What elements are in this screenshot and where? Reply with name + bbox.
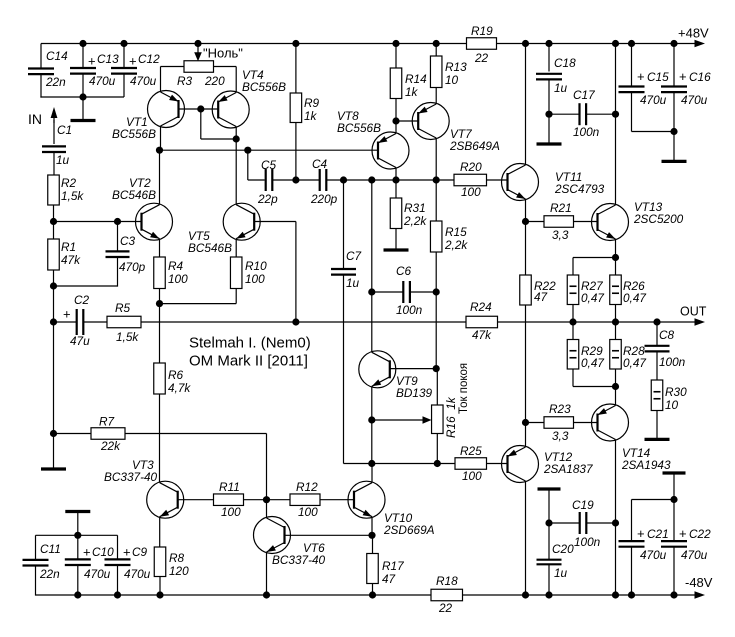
node junction VT14 emitter: [612, 383, 619, 390]
node junction C5-C4 R9: [292, 176, 299, 183]
svg-text:C10: C10: [92, 545, 114, 559]
wire C4 right: [326, 179, 343, 181]
node junction C12 top rail: [120, 40, 127, 47]
svg-text:22n: 22n: [39, 567, 60, 581]
svg-text:0,47: 0,47: [581, 356, 604, 370]
node junction VT11 rail: [522, 40, 529, 47]
wire C11 top: [35, 535, 37, 560]
wire R5 to R24: [141, 321, 466, 323]
resistor R8: [154, 547, 189, 578]
capacitor C17: [573, 88, 600, 139]
wire VT13 collector: [615, 44, 617, 206]
svg-text:R16 1k: R16 1k: [444, 396, 458, 438]
node antenna bottom block: [65, 512, 90, 536]
node junction R26 line OUT: [612, 318, 619, 325]
svg-text:470u: 470u: [130, 74, 157, 88]
node junction C10 rail: [74, 591, 81, 598]
svg-text:C14: C14: [46, 49, 68, 63]
node junction C19 right: [612, 519, 619, 526]
svg-text:100n: 100n: [659, 355, 686, 369]
svg-text:C18: C18: [554, 56, 576, 70]
svg-text:OUT: OUT: [680, 305, 707, 319]
wire ground stem C13 block: [82, 97, 84, 120]
capacitor C15: [619, 69, 670, 107]
resistor R2: [48, 175, 85, 205]
node junction y463 left: [368, 460, 375, 467]
wire R3 right to VT4: [214, 67, 237, 93]
wire IN to C1: [53, 120, 55, 144]
wire C3 bottom: [54, 257, 118, 286]
wire C7 top: [343, 180, 345, 269]
svg-text:Stelmah I. (Nem0): Stelmah I. (Nem0): [189, 335, 311, 352]
wire R26 top: [615, 258, 617, 276]
wire C2 to R5: [83, 321, 107, 323]
node junction R27 line OUT: [569, 318, 576, 325]
svg-text:470u: 470u: [84, 567, 111, 581]
resistor R16: [432, 396, 458, 438]
wire C17 left: [549, 113, 580, 115]
svg-text:BC337-40: BC337-40: [104, 470, 158, 484]
svg-text:R10: R10: [245, 259, 267, 273]
resistor R14: [390, 68, 427, 99]
wire VT1 base to VT4 base: [179, 108, 219, 110]
wire C12 top: [123, 44, 125, 69]
svg-text:470u: 470u: [640, 548, 667, 562]
transistor VT12: [502, 446, 593, 483]
svg-text:100: 100: [462, 469, 482, 483]
wire R4 bottom: [159, 289, 161, 304]
transistor VT1: [112, 91, 185, 142]
resistor R22: [520, 275, 556, 305]
wire R20 to VT11: [487, 179, 508, 181]
wire VT14 base: [574, 422, 598, 424]
svg-text:R1: R1: [61, 240, 76, 254]
node junction VT5 base drop: [292, 318, 299, 325]
resistor R23: [544, 402, 574, 443]
node junction R9 rail: [292, 40, 299, 47]
svg-text:+: +: [637, 69, 645, 84]
svg-text:1u: 1u: [554, 566, 568, 580]
capacitor C16: [661, 69, 711, 107]
svg-text:1u: 1u: [346, 276, 360, 290]
wire VT6 emitter: [266, 552, 268, 595]
resistor R1: [48, 239, 81, 270]
resistor R25: [455, 444, 487, 483]
capacitor C21: [619, 526, 669, 562]
svg-text:100n: 100n: [396, 303, 423, 317]
wire R11 to node: [244, 499, 291, 501]
svg-text:R21: R21: [550, 201, 572, 215]
node junction C5 tap: [244, 147, 251, 154]
node junction wiper: [368, 416, 375, 423]
capacitor C8: [645, 328, 686, 369]
wire R17 bottom: [372, 584, 374, 596]
svg-text:R13: R13: [445, 60, 467, 74]
wire R15 top: [435, 180, 437, 221]
wire VT9 collector line: [371, 180, 373, 352]
svg-text:100: 100: [461, 185, 481, 199]
node junction Nol rail: [194, 40, 201, 47]
svg-text:R18: R18: [436, 574, 458, 588]
wire C7 bottom: [344, 275, 372, 464]
wire VT7 base: [396, 120, 418, 122]
svg-text:+: +: [679, 526, 687, 541]
node junction R13 rail: [433, 40, 440, 47]
svg-text:C22: C22: [689, 527, 711, 541]
svg-text:100: 100: [245, 272, 265, 286]
svg-text:R7: R7: [99, 415, 115, 429]
svg-text:470u: 470u: [124, 567, 151, 581]
wire C1 to R2: [53, 152, 55, 175]
wire R9 top: [295, 44, 297, 94]
svg-text:C2: C2: [74, 293, 90, 307]
node junction C16 rail: [670, 40, 677, 47]
wire R6 to VT3: [159, 394, 161, 483]
wire feedback to C2: [54, 321, 77, 323]
node junction C4 C7: [340, 176, 347, 183]
node junction R1 bottom: [50, 282, 57, 289]
svg-text:0,47: 0,47: [581, 291, 604, 305]
node junction VT13 emitter: [612, 254, 619, 261]
wire VT1 collector: [160, 126, 162, 150]
svg-text:100n: 100n: [573, 125, 600, 139]
transistor VT2: [112, 176, 173, 240]
resistor R5: [107, 301, 141, 344]
svg-text:R4: R4: [168, 259, 184, 273]
resistor R12: [290, 480, 320, 519]
svg-text:2SB649A: 2SB649A: [449, 139, 500, 153]
svg-text:+: +: [129, 54, 137, 69]
svg-text:22n: 22n: [45, 75, 66, 89]
wire VT11 collector: [525, 44, 527, 166]
resistor R30: [651, 380, 687, 412]
svg-text:+: +: [88, 54, 96, 69]
transistor VT10: [348, 481, 435, 537]
svg-text:+: +: [637, 526, 645, 541]
wire VT5 base: [254, 222, 296, 323]
wire C5 to C4: [272, 179, 319, 181]
svg-text:C17: C17: [573, 88, 595, 102]
svg-text:100: 100: [221, 505, 241, 519]
svg-text:C13: C13: [97, 52, 119, 66]
ground R30: [645, 438, 670, 441]
node junction R7 left: [50, 430, 57, 437]
svg-text:47: 47: [534, 290, 548, 304]
wire VT5 collector: [235, 139, 237, 205]
wire y463 to R25: [372, 463, 455, 465]
svg-text:+48V: +48V: [678, 26, 709, 41]
resistor R21: [544, 201, 574, 242]
capacitor C14: [28, 49, 68, 89]
resistor R15: [430, 221, 468, 252]
wire R13 top: [435, 44, 437, 57]
resistor R3: [177, 61, 225, 88]
node junction C6 left: [368, 288, 375, 295]
resistor R11: [214, 480, 244, 519]
wire R22 top: [525, 222, 527, 276]
wire R16 bottom: [436, 434, 438, 464]
wire y180 rail: [344, 179, 455, 181]
wire C19 right: [586, 522, 615, 524]
capacitor C18: [536, 56, 576, 95]
wire C14 bottom: [40, 74, 124, 97]
resistor R26: [610, 275, 647, 305]
wire R7 right: [125, 434, 267, 500]
wire -48V rail right segment: [463, 594, 698, 596]
svg-text:2SC5200: 2SC5200: [633, 212, 684, 226]
svg-text:22p: 22p: [257, 192, 278, 206]
wire C12 bottom: [123, 74, 125, 97]
wire R29 top: [572, 322, 574, 340]
resistor R24: [466, 300, 498, 342]
wire VT9 base: [390, 368, 436, 370]
wire C21 bottom: [631, 547, 633, 595]
svg-text:BC546B: BC546B: [112, 188, 156, 202]
svg-text:470u: 470u: [89, 74, 116, 88]
wire block top: [36, 534, 118, 536]
wire R13 to VT7 emitter: [435, 88, 437, 105]
svg-text:470p: 470p: [119, 260, 146, 274]
resistor R10: [230, 257, 267, 289]
transistor VT14: [592, 404, 671, 472]
wire VT3 emitter: [159, 517, 161, 547]
capacitor C2: [63, 293, 90, 348]
capacitor C19: [572, 498, 601, 549]
node IN arrow: [28, 107, 57, 127]
svg-text:Ток покоя: Ток покоя: [458, 363, 470, 414]
svg-text:22: 22: [474, 51, 489, 65]
wire R3 left to VT1: [161, 67, 185, 93]
svg-text:47k: 47k: [472, 328, 492, 342]
svg-text:1k: 1k: [405, 85, 419, 99]
wire R1 to node: [53, 270, 55, 286]
svg-text:-48V: -48V: [685, 575, 713, 590]
wire VT10 base: [320, 499, 354, 501]
svg-text:1,5k: 1,5k: [61, 189, 84, 203]
transistor VT6: [254, 517, 326, 568]
wire R2 to node: [53, 205, 55, 222]
svg-text:2,2k: 2,2k: [444, 238, 468, 252]
svg-text:1k: 1k: [304, 109, 318, 123]
wire C14 block left: [40, 44, 42, 69]
wire R30 bottom: [656, 411, 658, 439]
wire node to R1: [53, 222, 55, 240]
wire C15 top: [631, 44, 633, 87]
wire C9 bottom: [117, 565, 119, 595]
wire VT5 emitter: [235, 239, 237, 257]
svg-text:R20: R20: [460, 160, 482, 174]
svg-text:470u: 470u: [681, 93, 708, 107]
resistor R13: [430, 56, 467, 88]
resistor R20: [454, 160, 487, 199]
svg-text:R12: R12: [296, 480, 318, 494]
wire C9 top stub: [117, 535, 119, 559]
svg-text:1u: 1u: [554, 81, 568, 95]
ground C15-C16: [662, 160, 687, 163]
svg-text:C1: C1: [57, 123, 72, 137]
capacitor C6: [396, 264, 423, 317]
svg-text:R19: R19: [471, 24, 493, 38]
svg-text:BC546B: BC546B: [188, 241, 232, 255]
node junction C13 bottom: [79, 93, 86, 100]
wire R4 to R10: [160, 289, 237, 304]
wire VT14 emitter: [615, 387, 617, 406]
ground C18: [537, 142, 562, 145]
node junction C17 left: [545, 111, 552, 118]
svg-text:3,3: 3,3: [552, 228, 569, 242]
wire VT3 base: [178, 499, 214, 501]
wire C16 bottom: [673, 92, 675, 131]
capacitor C5: [257, 158, 278, 206]
label title: [189, 335, 311, 370]
svg-text:R6: R6: [168, 368, 184, 382]
transistor VT8: [337, 109, 409, 169]
wire VT11 emitter: [525, 199, 527, 222]
wire R4 node down to R6: [159, 304, 161, 363]
wire R28 top: [615, 322, 617, 340]
node R16 wiper arrow: [372, 416, 432, 424]
wire VT12 collector: [525, 481, 527, 595]
svg-text:2SD669A: 2SD669A: [383, 523, 435, 537]
wire R9 bottom: [295, 123, 297, 181]
transistor VT4: [212, 68, 286, 128]
node antenna C19: [538, 489, 561, 523]
transistor VT11: [502, 164, 605, 201]
svg-text:R24: R24: [470, 300, 492, 314]
capacitor C11: [23, 542, 61, 581]
transistor VT5: [188, 203, 260, 255]
node junction VT8 collector: [392, 176, 399, 183]
svg-text:0,47: 0,47: [623, 291, 646, 305]
wire VT13 emitter: [615, 239, 617, 258]
wire +48V rail right segment: [497, 43, 698, 45]
svg-text:2SA1837: 2SA1837: [543, 462, 593, 476]
ground input block: [71, 119, 96, 122]
svg-text:47: 47: [382, 572, 396, 586]
svg-text:C9: C9: [132, 545, 148, 559]
node junction VT9 line top: [368, 176, 375, 183]
svg-text:C21: C21: [647, 527, 669, 541]
wire +48V rail left segment: [41, 43, 467, 45]
svg-text:BC556B: BC556B: [337, 121, 381, 135]
node junction VT9 base R16: [433, 365, 440, 372]
wire VT8 collector: [395, 168, 397, 181]
svg-text:R8: R8: [169, 551, 185, 565]
svg-text:22k: 22k: [100, 439, 121, 453]
svg-text:R5: R5: [115, 301, 131, 315]
svg-text:1,5k: 1,5k: [116, 330, 139, 344]
svg-text:R9: R9: [304, 96, 320, 110]
svg-text:10: 10: [665, 398, 679, 412]
svg-text:R25: R25: [460, 444, 482, 458]
resistor R9: [290, 93, 319, 123]
svg-text:470u: 470u: [681, 548, 708, 562]
wire R17 top: [372, 535, 374, 553]
wire R25 to VT12: [487, 463, 508, 465]
node +48V arrow: [678, 26, 709, 48]
wire C17 right: [586, 113, 615, 115]
transistor VT9: [359, 351, 433, 400]
node junction C22 top: [670, 496, 677, 503]
capacitor C1: [42, 123, 72, 167]
node junction C19 left: [545, 519, 552, 526]
node junction C10 top: [74, 532, 81, 539]
wire C22 stem: [673, 500, 675, 541]
wire C11 bottom: [35, 566, 37, 596]
svg-text:C6: C6: [396, 264, 412, 278]
wire C16 top: [673, 44, 675, 87]
wire VT10 emitter: [371, 517, 373, 536]
wire R23 left: [526, 422, 545, 424]
node junction y463 R16: [434, 460, 441, 467]
svg-text:100: 100: [168, 272, 188, 286]
node junction C20 rail: [545, 591, 552, 598]
resistor R17: [367, 554, 404, 587]
capacitor C20: [537, 542, 575, 580]
wire VT4 collector: [235, 127, 237, 140]
wire C18 bottom: [548, 79, 550, 142]
node junction C6 right: [433, 288, 440, 295]
wire R15 bottom: [435, 252, 437, 369]
wire R27 bottom: [572, 305, 574, 323]
wire R8 bottom: [159, 577, 161, 596]
wire VT2 collector: [159, 150, 161, 205]
node -48V arrow: [685, 575, 713, 599]
wire R29 bottom: [573, 369, 616, 387]
node junction VT7 collector R15: [433, 176, 440, 183]
resistor R31: [390, 198, 427, 229]
wire C6 left: [372, 291, 404, 293]
wire gnd stem C16: [673, 132, 675, 161]
svg-text:+: +: [679, 69, 687, 84]
wire VT12 emitter: [525, 423, 527, 448]
wire C22 bottom: [673, 547, 675, 595]
svg-text:OM Mark II [2011]: OM Mark II [2011]: [189, 353, 308, 370]
wire R16 top: [436, 369, 438, 405]
wire R14 top: [395, 44, 397, 69]
node junction C9 rail: [114, 591, 121, 598]
node junction C13 top rail: [79, 40, 86, 47]
wire C3 drop: [117, 222, 119, 252]
node junction VT14 rail: [612, 591, 619, 598]
wire C18 top: [548, 44, 550, 72]
wire C13 top: [82, 44, 84, 69]
resistor R4: [154, 257, 188, 289]
capacitor C13: [70, 52, 119, 88]
node junction R11 R12 VT6: [263, 496, 270, 503]
node junction C3 top: [114, 218, 121, 225]
svg-text:3,3: 3,3: [552, 429, 569, 443]
svg-text:R2: R2: [61, 176, 77, 190]
svg-text:C19: C19: [572, 498, 594, 512]
svg-text:R14: R14: [405, 72, 427, 86]
svg-text:C5: C5: [261, 158, 277, 172]
node junction VT10 emitter: [368, 532, 375, 539]
capacitor C3: [106, 234, 146, 274]
svg-text:47k: 47k: [61, 253, 81, 267]
node junction VT13 rail: [612, 40, 619, 47]
wire gnd stem left: [53, 434, 55, 468]
node junction C18 rail: [545, 40, 552, 47]
transistor VT7: [412, 103, 500, 154]
node VT2 base junction: [50, 218, 57, 225]
wire VT10 collector: [371, 464, 373, 483]
svg-text:R31: R31: [404, 201, 426, 215]
wire to R21: [526, 221, 545, 223]
svg-text:C16: C16: [689, 70, 711, 84]
wire VT9 emitter down: [371, 420, 373, 464]
capacitor C22: [661, 526, 711, 562]
